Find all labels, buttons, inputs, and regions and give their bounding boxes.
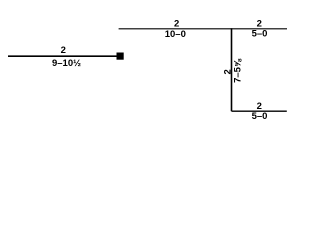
svg-text:10–0: 10–0 — [165, 29, 186, 40]
svg-text:9–10½: 9–10½ — [52, 58, 81, 69]
svg-text:5–0: 5–0 — [252, 111, 268, 122]
node junction box (filled square) — [117, 53, 124, 60]
svg-text:7–5⅝: 7–5⅝ — [232, 58, 243, 83]
wire W1 (left horizontal run) — [8, 55, 117, 57]
svg-text:5–0: 5–0 — [252, 29, 268, 40]
svg-text:2: 2 — [61, 45, 66, 56]
wire W2 (top horizontal run) — [119, 28, 287, 30]
wire W4 (bottom horizontal run) — [232, 110, 287, 112]
wire W3 (vertical run) — [231, 28, 233, 111]
